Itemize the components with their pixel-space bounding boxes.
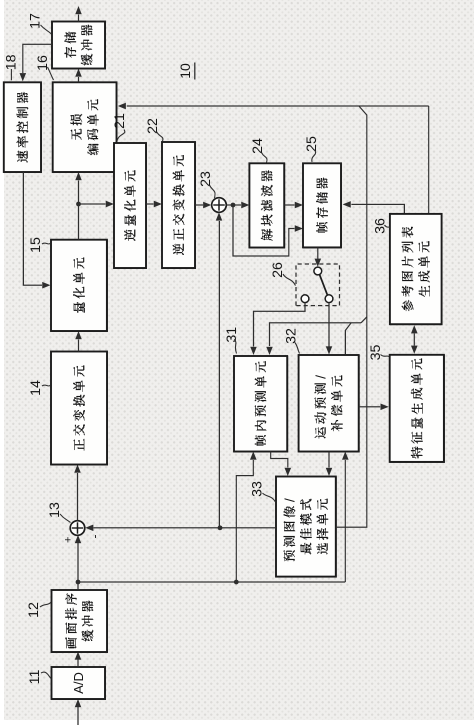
svg-text:25: 25 (304, 136, 320, 152)
wire 25-26 (317, 247, 319, 258)
svg-text:24: 24 (250, 138, 266, 154)
wire 23-24 (226, 204, 241, 206)
svg-text:15: 15 (28, 237, 44, 253)
block 21 inverse quantization unit (114, 143, 146, 268)
block 22 inverse orthogonal transform unit (162, 142, 195, 268)
svg-text:33: 33 (250, 481, 266, 497)
block 36 reference picture list generation unit (390, 214, 442, 325)
label 33 (250, 481, 276, 502)
svg-text:/: / (312, 375, 328, 379)
label 25 (304, 136, 320, 162)
label 17 (28, 13, 52, 34)
adder 23 (212, 198, 227, 213)
label 24 (250, 138, 267, 162)
svg-text:23: 23 (198, 171, 214, 187)
label 14 (28, 380, 51, 396)
svg-text:18: 18 (3, 54, 19, 70)
label 13 (47, 502, 71, 522)
svg-text:32: 32 (284, 328, 300, 344)
wire 32-33 (328, 452, 330, 468)
wire 15-21 branch (79, 203, 106, 205)
wire 33 up (220, 527, 276, 529)
wire 13-14 (77, 473, 79, 521)
svg-text:-: - (88, 535, 102, 539)
label 32 (284, 328, 300, 353)
wire 15-16 (78, 181, 80, 240)
label 18 (3, 54, 19, 80)
svg-text:21: 21 (112, 113, 128, 129)
wire 35-36 bidir (413, 334, 415, 346)
label 35 (368, 345, 389, 361)
label 36 (373, 218, 391, 234)
label 15 (28, 237, 51, 253)
wire 11-12 (77, 659, 79, 667)
wire 32-35 (359, 406, 381, 408)
wire 18-15 control (23, 172, 42, 285)
svg-text:/: / (281, 498, 297, 502)
label 12 (26, 602, 51, 618)
svg-text:A/D: A/D (71, 672, 86, 694)
wire input (77, 706, 79, 725)
wire 36 vert (359, 105, 429, 107)
svg-text:17: 17 (28, 13, 44, 29)
label 11 (27, 670, 51, 685)
svg-text:14: 14 (28, 380, 44, 396)
wire 31-33 (271, 452, 288, 468)
wire 33-23 (218, 221, 220, 528)
block 35 feature quantity generation unit (390, 355, 445, 462)
block 31 intra prediction unit (234, 356, 288, 452)
wire 36-16 horiz (428, 106, 430, 214)
wire trunk jog 31 (361, 317, 367, 323)
wire trunk to 32 (345, 323, 351, 355)
block 25 frame memory (303, 163, 341, 247)
wire 24-25 (284, 204, 294, 206)
wire 33 trunk (127, 106, 367, 527)
block 15 quantization unit (51, 240, 107, 332)
wire raw to 31 (236, 460, 253, 582)
block 32 motion prediction compensation unit (299, 355, 359, 452)
svg-text:11: 11 (27, 670, 43, 685)
svg-text:31: 31 (224, 327, 240, 343)
svg-text:12: 12 (26, 602, 42, 618)
switch 26 (selector) (296, 264, 340, 306)
block 17 storage buffer (52, 22, 105, 69)
block 18 rate controller (4, 82, 42, 172)
wire 14-15 (78, 340, 80, 352)
wire 33-13 (94, 527, 221, 529)
block 33 predicted image optimal mode selection unit (276, 477, 336, 577)
wire raw to 32 (344, 460, 346, 582)
wire 23-25 bypass (233, 205, 295, 256)
label 21 (112, 113, 128, 141)
wire 26-32 (328, 303, 330, 347)
wire 17-out (78, 15, 80, 22)
svg-text:+: + (63, 537, 75, 543)
svg-text:22: 22 (145, 118, 161, 134)
label 26 (270, 262, 296, 285)
wire 12 raw branch vert (78, 581, 345, 583)
svg-text:10: 10 (177, 63, 193, 79)
label 22 (145, 118, 163, 141)
svg-text:35: 35 (368, 345, 384, 361)
wire 17-18 feedback (23, 44, 52, 73)
wire 36-25 (351, 204, 404, 213)
wire 12-13 (77, 543, 79, 590)
wire trunk to 31 (270, 323, 362, 346)
block 12 picture reorder buffer (52, 590, 108, 652)
block 24 deblocking filter (249, 163, 284, 248)
wire 22-23 (195, 204, 203, 206)
wire 26-31 (254, 303, 306, 347)
block 11 A/D converter (52, 667, 106, 699)
block 16 lossless encoding unit (53, 82, 117, 172)
wire 16-17 (78, 77, 80, 82)
wire 21-22 (146, 203, 154, 205)
adder 13 (subtractor) (63, 521, 102, 543)
label 31 (224, 327, 240, 354)
label 16 (35, 55, 54, 80)
block 14 orthogonal transform unit (51, 352, 107, 465)
label 23 (198, 171, 215, 198)
